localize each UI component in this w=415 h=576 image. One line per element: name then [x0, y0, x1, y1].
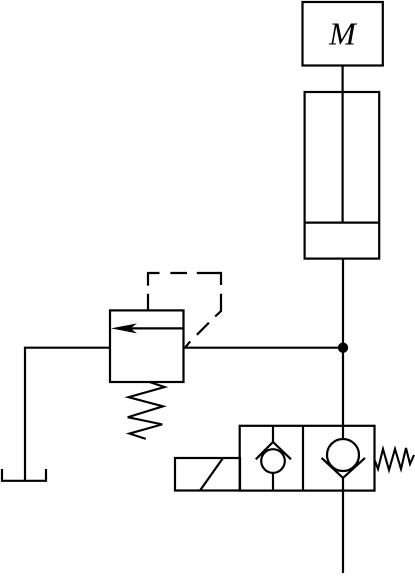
relief valve V1 body [110, 310, 184, 382]
right cell wire top [342, 426, 344, 439]
left cell check valve wire top [272, 426, 274, 442]
valve cell divider [302, 426, 304, 491]
wire relief valve to tank (left, down) [25, 348, 110, 481]
relief valve spring [128, 382, 165, 439]
cylinder body [305, 92, 380, 259]
wire cylinder to valve block (through junction) [342, 259, 344, 426]
solenoid diagonal [200, 458, 223, 491]
left cell check valve seat chevron [256, 442, 291, 459]
node junction dot [338, 343, 348, 353]
left cell check valve ball [261, 449, 285, 473]
piston rod wire (M box to piston) [342, 66, 344, 223]
wire relief valve outlet to junction [184, 347, 344, 349]
outlet wire to tank (bottom) [342, 478, 344, 573]
svg-text:M: M [328, 16, 358, 52]
piston [305, 222, 380, 224]
left cell check valve wire bottom [272, 473, 274, 491]
relief valve flow arrow [122, 327, 183, 329]
pilot dashed line [148, 273, 221, 348]
mass block M [303, 2, 383, 66]
right cell check valve seat V [322, 458, 365, 478]
valve block outline [240, 426, 375, 491]
tank symbol [2, 469, 46, 481]
valve return spring (right) [375, 448, 414, 470]
right cell check valve ball [327, 439, 359, 471]
solenoid actuator [175, 458, 240, 491]
